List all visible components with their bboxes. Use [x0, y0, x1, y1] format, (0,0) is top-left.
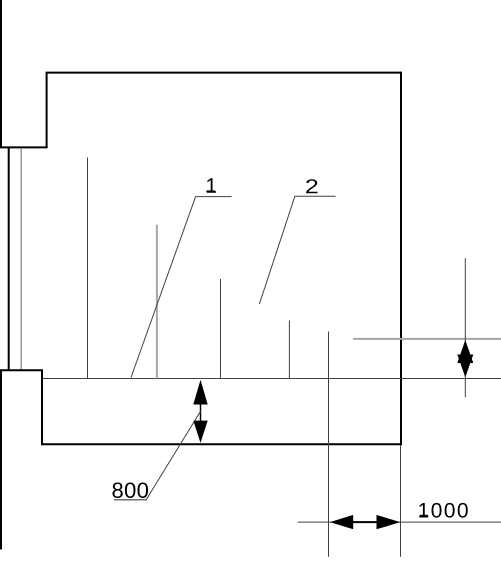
label 1 leader	[131, 197, 232, 378]
room outline right edge	[400, 72, 402, 446]
800 text	[112, 482, 148, 498]
wall mid black line	[8, 147, 10, 370]
1000 dimension line	[298, 521, 501, 523]
room outline top edge	[46, 72, 401, 74]
800 leader diagonal	[146, 411, 201, 501]
floor line	[43, 378, 501, 380]
1000 arrow left	[330, 515, 353, 529]
800 arrow down	[193, 421, 207, 443]
post E extension line 1000 left	[328, 332, 330, 557]
label 1 foot serif	[206, 190, 215, 192]
post A	[87, 158, 89, 379]
sill box right edge	[41, 370, 43, 445]
right dimension arrow up	[457, 340, 473, 363]
1000 arrow right	[377, 515, 401, 529]
gray level line	[353, 338, 501, 340]
extension line 1000 right	[400, 446, 402, 557]
post B gray	[156, 225, 158, 379]
right dimension arrow down	[457, 355, 473, 378]
wall ceiling step line	[0, 146, 48, 148]
1000 foot serif	[420, 515, 428, 517]
800 arrow up	[193, 380, 207, 405]
room outline left upper edge	[46, 73, 48, 148]
post D	[288, 321, 290, 379]
room outline bottom edge	[42, 443, 402, 445]
label 2 leader	[259, 196, 335, 304]
label 1 text	[207, 178, 216, 192]
wall left outer edge lower	[0, 370, 2, 549]
wall left outer edge upper	[0, 0, 2, 147]
wall mid gray line	[20, 148, 22, 370]
800 dimension shaft	[200, 404, 202, 421]
post C	[220, 279, 222, 379]
label 2 text	[306, 179, 317, 193]
right dimension line	[464, 258, 466, 397]
1000 text	[419, 503, 468, 518]
sill box top edge	[0, 369, 43, 371]
800 leader underline	[114, 499, 146, 501]
1000 dimension shaft	[353, 521, 377, 523]
